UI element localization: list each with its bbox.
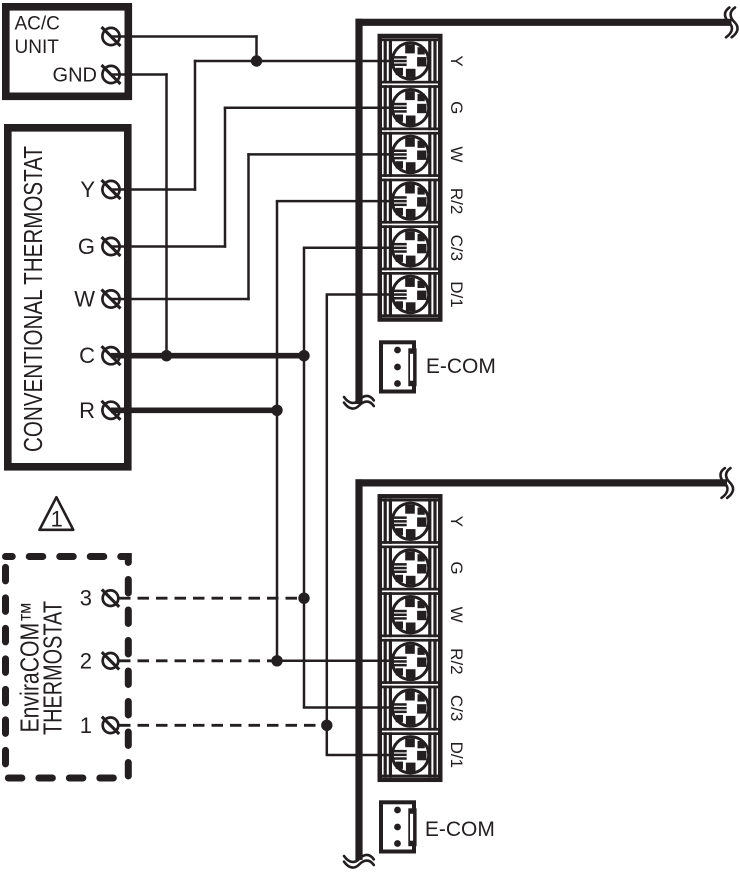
wire AC/C terminal to junction (vertical) bbox=[255, 35, 258, 61]
wire break symbol upper bus right bbox=[725, 7, 738, 37]
svg-text:E-COM: E-COM bbox=[426, 355, 496, 378]
wire D/1 riser bbox=[326, 295, 329, 756]
bus wire lower (horizontal) bbox=[356, 479, 728, 486]
wire break symbol upper bus bottom bbox=[344, 396, 374, 409]
svg-text:CONVENTIONAL THERMOSTAT: CONVENTIONAL THERMOSTAT bbox=[20, 146, 48, 452]
svg-text:Y: Y bbox=[447, 55, 466, 66]
wire D/1 to lower terminal strip bbox=[326, 754, 410, 757]
svg-text:W: W bbox=[447, 607, 466, 623]
svg-text:2: 2 bbox=[80, 648, 92, 673]
svg-text:G: G bbox=[447, 101, 466, 114]
svg-text:C: C bbox=[79, 343, 95, 368]
E-COM connector lower bbox=[381, 802, 417, 851]
wire Y thermostat (horizontal) bbox=[111, 188, 196, 191]
terminal strip TB1 cell R/2 screw bbox=[382, 179, 439, 224]
terminal strip TB2 outer frame bbox=[380, 496, 441, 780]
svg-text:W: W bbox=[447, 146, 466, 162]
svg-text:1: 1 bbox=[80, 713, 92, 738]
dashed wire EnviraCOM 2 bbox=[119, 659, 277, 662]
wire R/2 to upper terminal strip bbox=[276, 200, 410, 203]
wire W to terminal strip bbox=[247, 153, 410, 156]
terminal strip TB1 cell W screw bbox=[382, 132, 439, 177]
wire W thermostat (horizontal) bbox=[111, 298, 250, 301]
terminal R screw (conventional thermostat) bbox=[102, 401, 121, 420]
junction dot R bbox=[271, 405, 282, 416]
junction dot EnviraCOM 1 bbox=[321, 720, 332, 731]
svg-text:3: 3 bbox=[80, 586, 92, 611]
note 1 warning triangle bbox=[40, 497, 74, 531]
wire R/2 to lower terminal strip bbox=[277, 660, 410, 663]
svg-text:Y: Y bbox=[447, 516, 466, 527]
svg-text:THERMOSTAT: THERMOSTAT bbox=[40, 601, 68, 735]
AC/C terminal screw bbox=[102, 27, 121, 46]
AC/C unit label bbox=[15, 14, 60, 59]
wire AC/C terminal to junction (horizontal) bbox=[111, 35, 258, 38]
wire W riser bbox=[247, 153, 250, 300]
svg-text:1: 1 bbox=[51, 506, 63, 531]
EnviraCOM thermostat label bbox=[17, 601, 68, 735]
wire R thermostat (thick) bbox=[111, 407, 277, 413]
terminal strip TB2 cell Y screw bbox=[382, 499, 439, 544]
svg-text:G: G bbox=[78, 234, 95, 259]
wire C thermostat (thick) bbox=[111, 353, 304, 359]
EnviraCOM thermostat dashed box bbox=[6, 557, 129, 779]
terminal 3 screw (EnviraCOM thermostat) bbox=[102, 590, 119, 607]
junction dot C/3 bbox=[298, 350, 309, 361]
wire C/3 riser bbox=[303, 248, 306, 708]
wire GND to C (horizontal) bbox=[111, 73, 168, 76]
terminal strip TB2 cell C/3 screw bbox=[382, 686, 439, 731]
svg-text:AC/C: AC/C bbox=[15, 14, 60, 35]
terminal G screw (conventional thermostat) bbox=[102, 237, 121, 256]
terminal C screw (conventional thermostat) bbox=[102, 346, 121, 365]
wire C/3 to upper terminal strip bbox=[303, 247, 410, 250]
wire D/1 to upper terminal strip bbox=[326, 293, 410, 296]
terminal strip TB1 cell C/3 screw bbox=[382, 225, 439, 270]
wire Y to terminal strip bbox=[194, 60, 410, 63]
dashed wire EnviraCOM 1 bbox=[119, 724, 327, 727]
wire G thermostat (horizontal) bbox=[111, 245, 226, 248]
wire break symbol lower bus bottom bbox=[344, 855, 374, 868]
terminal strip TB2 cell R/2 screw bbox=[382, 639, 439, 684]
terminal strip TB1 cell Y screw bbox=[382, 39, 439, 84]
terminal strip TB1 outer frame bbox=[380, 36, 441, 320]
svg-text:E-COM: E-COM bbox=[425, 818, 495, 841]
terminal strip TB2 cell G screw bbox=[382, 546, 439, 591]
GND terminal screw bbox=[102, 65, 121, 84]
bus wire upper (horizontal) bbox=[356, 19, 732, 26]
svg-text:GND: GND bbox=[53, 64, 97, 86]
terminal strip TB1 cell D/1 screw bbox=[382, 272, 439, 317]
wire G riser bbox=[224, 107, 227, 248]
terminal strip TB2 cell W screw bbox=[382, 592, 439, 637]
svg-text:R/2: R/2 bbox=[447, 188, 466, 214]
terminal strip TB1 cell G screw bbox=[382, 85, 439, 130]
terminal 2 screw (EnviraCOM thermostat) bbox=[102, 652, 119, 669]
svg-text:D/1: D/1 bbox=[447, 281, 466, 307]
wire R/2 riser bbox=[276, 201, 279, 661]
E-COM connector upper bbox=[381, 342, 417, 391]
wire C/3 to lower terminal strip bbox=[303, 706, 410, 709]
junction dot Y/AC-C bbox=[251, 55, 262, 66]
wire Y riser bbox=[194, 60, 197, 191]
terminal Y screw (conventional thermostat) bbox=[102, 180, 121, 199]
svg-text:R: R bbox=[79, 398, 95, 423]
conventional thermostat box bbox=[8, 128, 128, 467]
svg-text:W: W bbox=[74, 287, 95, 312]
svg-text:UNIT: UNIT bbox=[15, 37, 60, 58]
junction dot EnviraCOM 2 bbox=[271, 655, 282, 666]
wire break symbol lower bus right bbox=[720, 468, 733, 498]
svg-text:C/3: C/3 bbox=[447, 695, 466, 721]
wire G to terminal strip bbox=[224, 106, 410, 109]
svg-text:C/3: C/3 bbox=[447, 235, 466, 261]
svg-text:G: G bbox=[447, 561, 466, 574]
svg-text:R/2: R/2 bbox=[447, 648, 466, 674]
dashed wire EnviraCOM 3 bbox=[119, 597, 304, 600]
wire GND to C (vertical) bbox=[165, 73, 168, 355]
terminal W screw (conventional thermostat) bbox=[102, 290, 121, 309]
bus wire upper (vertical) bbox=[355, 19, 362, 404]
junction dot GND/C bbox=[161, 350, 172, 361]
bus wire lower (vertical) bbox=[355, 479, 362, 860]
svg-text:D/1: D/1 bbox=[447, 742, 466, 768]
junction dot EnviraCOM 3 bbox=[298, 593, 309, 604]
AC/C unit box bbox=[6, 7, 129, 97]
svg-text:Y: Y bbox=[80, 177, 95, 202]
terminal strip TB2 cell D/1 screw bbox=[382, 732, 439, 777]
terminal 1 screw (EnviraCOM thermostat) bbox=[102, 717, 119, 734]
